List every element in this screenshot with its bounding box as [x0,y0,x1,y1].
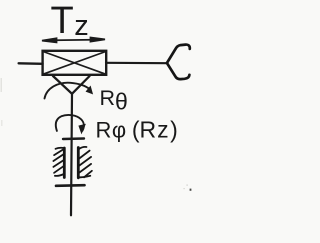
bearing left hatched block [53,148,64,178]
wire: left link line [19,62,43,65]
X cross inside box [43,52,106,75]
svg-text:Rφ(Rz): Rφ(Rz) [96,117,178,143]
clevis fork at right end [167,45,190,80]
prismatic joint box [43,51,107,75]
tick: bottom plate of bearing [56,184,85,187]
paper background [0,0,209,243]
arc arrow Rtheta [45,83,91,99]
scan noise specks [1,78,192,191]
wire: right link line [106,62,167,65]
double-headed arrow for Tz [42,38,105,43]
arrowhead of Rtheta arc [86,86,92,94]
bearing right hatched block [78,147,92,178]
triangle pivot below box [53,76,90,94]
tick: top plate of bearing [63,137,84,140]
shaft: vertical line from pivot to bottom [71,94,72,215]
arrowhead of Rphi arrow [79,124,86,133]
rotation arrow Rphi around shaft [56,115,84,131]
